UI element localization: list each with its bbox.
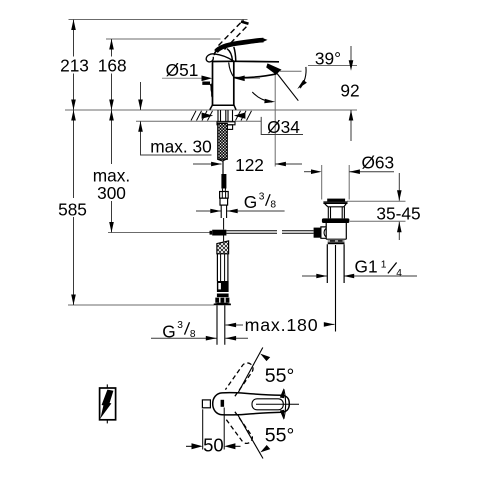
50 ext line right (pivot) (223, 408, 225, 450)
svg-text:G1: G1 (355, 256, 378, 276)
side port arc (324, 228, 326, 237)
arrow max300 top (up) (109, 110, 114, 121)
arrow 122 left (right-pointing at axis) (211, 162, 222, 167)
50 dim right arrow (224, 443, 235, 449)
aerator height extension line (280, 70, 302, 72)
svg-text:55°: 55° (265, 424, 295, 446)
arrow 35-45 top (down) (397, 190, 402, 201)
faucet body right edge (233, 62, 235, 106)
arrow Ø51 right (left-pointing) (234, 76, 245, 82)
pull rod lower segment (223, 218, 225, 230)
stud pipe inner (221, 254, 225, 281)
plug top (black) (327, 199, 345, 202)
icon tick bottom (106, 420, 108, 424)
Ø63 dimension right tail + underline (349, 171, 394, 173)
upper diagonal arrowhead (260, 354, 270, 362)
label G 3/8 (mid) (244, 192, 277, 213)
arrow G1 1/4 left (316, 274, 327, 279)
lever raised position (dashed) (219, 20, 249, 50)
icon tick top (106, 384, 108, 388)
swing span arc (284, 389, 286, 419)
dashed lever rotated down (225, 412, 252, 444)
arrow G1 1/4 right (344, 274, 355, 279)
gray band dashes (330, 240, 343, 242)
upper 55 diagonal (238, 348, 263, 394)
arrow 122 right (left-pointing at x275) (275, 162, 286, 167)
side port knob (black) (314, 228, 321, 238)
lever front tip loop (206, 54, 214, 62)
arrow Ø63 right (349, 169, 360, 174)
lower diagonal arrowhead (260, 445, 270, 452)
arrow 168 bottom (down) (109, 100, 114, 111)
max.180 right arrow tail (327, 323, 335, 325)
svg-text:35-45: 35-45 (376, 203, 420, 223)
svg-text:168: 168 (98, 55, 127, 75)
faucet shoulder + spout top edge (213, 60, 280, 63)
hose upper segment (222, 161, 224, 174)
lower body (326, 223, 346, 239)
arrow max.180 right (right-pointing at tailpipe) (324, 322, 335, 327)
arrow G3/8 mid left (210, 209, 221, 214)
arrow G3/8 bottom right (225, 336, 236, 341)
neck line (328, 206, 345, 208)
arrow max300 bottom (down) (109, 222, 114, 233)
arrow Ø51 left (right-pointing) (202, 76, 213, 82)
tailpipe (327, 244, 344, 283)
hose fitting taper (222, 189, 225, 192)
arrow 213 bottom (down) (71, 100, 76, 111)
svg-text:Ø63: Ø63 (361, 153, 394, 173)
svg-text:Ø34: Ø34 (267, 117, 300, 137)
pivot bar (black) (221, 400, 225, 407)
label G 3/8 (bottom) (162, 320, 196, 342)
arrow max30 bottom (up onto counter bottom) (138, 121, 143, 132)
Ø51 leader left (162, 77, 202, 79)
max.180 left arrow tail (225, 324, 243, 326)
G3/8 bottom right tail (225, 337, 248, 339)
svg-text:213: 213 (60, 55, 89, 75)
arrow 585 top (up, below counter) (71, 110, 76, 121)
arrow max.180 left (left-pointing at hose) (225, 323, 236, 328)
top reference line (faucet top level) (69, 19, 248, 21)
lower body bottom line (326, 238, 346, 240)
stud second band (217, 294, 229, 298)
39deg arc arrowhead at vertical leg (264, 99, 275, 104)
tailpipe center continuation (335, 245, 337, 332)
shank through hole (218, 110, 233, 121)
arrow G3/8 bottom left (206, 336, 217, 341)
arrow 92 bottom (up) (349, 110, 354, 121)
arrow 585 bottom (down) (71, 295, 76, 306)
svg-text:max. 30: max. 30 (150, 137, 211, 157)
svg-text:55°: 55° (265, 365, 295, 387)
svg-text:1: 1 (381, 259, 387, 270)
svg-text:39°: 39° (315, 48, 341, 68)
swing arrow down (280, 410, 284, 420)
drain seal level extension (350, 220, 406, 222)
svg-text:50: 50 (203, 435, 224, 456)
countertop top surface line (65, 109, 357, 111)
arrow 35-45 bottom (up) (397, 222, 402, 233)
arrow 213 top (up) (71, 20, 76, 31)
svg-text:122: 122 (235, 155, 264, 175)
stud nut (215, 298, 229, 303)
supply connection level line (max.300 bottom) (108, 232, 212, 234)
svg-text:G: G (244, 192, 257, 212)
39deg angle arc left piece (252, 92, 272, 102)
svg-text:max.180: max.180 (245, 315, 319, 335)
G1 1/4 dimension left tail (302, 275, 327, 277)
svg-text:8: 8 (190, 329, 196, 340)
arrow Ø34 right (left-pointing, in counter) (234, 113, 246, 119)
lower 55 diagonal (238, 415, 263, 459)
svg-text:Ø51: Ø51 (166, 60, 199, 80)
white gaps behind left column texts (59, 57, 90, 74)
122 dimension left tail (193, 163, 222, 165)
stud top (hatched) (217, 241, 229, 254)
spout underside (234, 74, 276, 78)
hose end level line (585 bottom) (68, 304, 214, 306)
counter hatch right (236, 111, 252, 121)
horizontal pop-up rod (226, 231, 313, 234)
213/585 dimension line (73, 20, 75, 306)
50 dim left arrow (192, 443, 203, 449)
stud black band (217, 281, 229, 292)
lever handle (solid, closed) (216, 40, 264, 51)
G3/8 thread pipe (221, 205, 226, 218)
lever raised tip cap (241, 22, 249, 24)
swing arrow up (280, 388, 284, 398)
svg-text:8: 8 (270, 200, 276, 211)
stud pipe outer (217, 254, 228, 281)
39deg label underline (308, 65, 357, 67)
lever inner contour (252, 399, 283, 410)
max30 label box (141, 121, 212, 155)
faucet base escutcheon (210, 105, 236, 110)
side port cylinder (321, 227, 326, 238)
dashed lever rotated up (225, 363, 253, 396)
Ø51 leader right tail (245, 77, 260, 79)
drain flange top level extension (347, 200, 406, 202)
arrow Ø63 left (311, 169, 322, 174)
92 upper arrow line (350, 46, 352, 61)
drain flange dia extension right (348, 165, 350, 200)
lever tip (262, 38, 268, 42)
svg-text:4: 4 (396, 268, 402, 279)
arrow 168 top (up) (109, 39, 114, 50)
link rod to stud (223, 236, 225, 242)
122 dimension right tail (275, 163, 302, 165)
pull-rod knob behind body (202, 81, 210, 84)
G3/8 nut upper (220, 192, 229, 199)
stud band slot (218, 283, 221, 289)
arrow G3/8 mid right (227, 209, 238, 214)
set screw block (202, 400, 210, 408)
centerline (256, 403, 299, 405)
stud base flange (black) (214, 303, 231, 306)
aerator wedge (266, 63, 281, 74)
countertop bottom surface line (136, 120, 261, 122)
flange (323, 202, 347, 207)
svg-text:92: 92 (340, 80, 359, 100)
svg-text:3: 3 (259, 192, 265, 203)
supply pipe below (217, 305, 225, 344)
water stream diagonal leg (276, 72, 299, 101)
G1 1/4 dimension right tail (344, 275, 418, 277)
washer under counter (217, 122, 235, 125)
upper body (328, 207, 344, 219)
168/max300 dimension line (111, 39, 113, 233)
counter hatch left (191, 111, 213, 121)
G3/8 bottom underline/dim (151, 337, 217, 339)
spout reach extension line (x=275) (274, 72, 276, 167)
svg-text:585: 585 (58, 200, 87, 220)
label G1 1/4 (355, 256, 403, 279)
39deg arc arrowhead at diagonal leg (297, 80, 307, 89)
lever neck right edge (234, 47, 236, 61)
G3/8 nut facets (222, 192, 225, 199)
svg-text:G: G (162, 322, 175, 342)
G3/8 mid dimension line (196, 210, 285, 212)
dark band (328, 242, 345, 244)
side bracket (227, 125, 232, 130)
hose end fitting (black) (221, 174, 226, 189)
35-45 lower arrow line (398, 222, 400, 240)
lever outline (top view) (213, 393, 290, 415)
rod coupling (black) (212, 230, 226, 236)
lever neck left edge (227, 49, 233, 61)
lightning bolt (100, 390, 113, 419)
Ø63 dimension left tail (304, 171, 312, 173)
spout root curve (229, 63, 235, 78)
shank bottom (218, 159, 228, 161)
threaded shank (218, 123, 228, 159)
50 dim right tail (235, 445, 241, 447)
faucet body left edge (212, 62, 214, 106)
icon box (100, 388, 116, 420)
50 ext line left (202, 409, 204, 449)
max30 top arrow line (140, 82, 142, 110)
arrow max30 top (down onto counter) (138, 100, 143, 111)
gray band (328, 240, 345, 243)
92 lower arrow line (350, 110, 352, 141)
svg-text:3: 3 (177, 320, 183, 331)
arrow 92 top (down) (349, 60, 354, 71)
G3/8 nut lower (220, 198, 228, 205)
stud nut facets (220, 298, 225, 303)
35-45 upper arrow line (398, 173, 400, 201)
50 dim left tail (186, 445, 192, 447)
drain flange dia extension left (321, 165, 323, 200)
seal ring (black) (322, 218, 350, 223)
arrow Ø34 left (right-pointing, in counter) (202, 113, 214, 119)
39deg angle arc right piece (300, 67, 306, 88)
pull-rod behind body (211, 84, 213, 97)
cartridge dome (214, 54, 233, 61)
Ø34 label box (261, 117, 303, 135)
lever hub front (214, 51, 216, 55)
svg-text:300: 300 (97, 183, 126, 203)
second reference line (handle level 168) (106, 38, 221, 40)
rod coupling left plug (210, 231, 213, 235)
